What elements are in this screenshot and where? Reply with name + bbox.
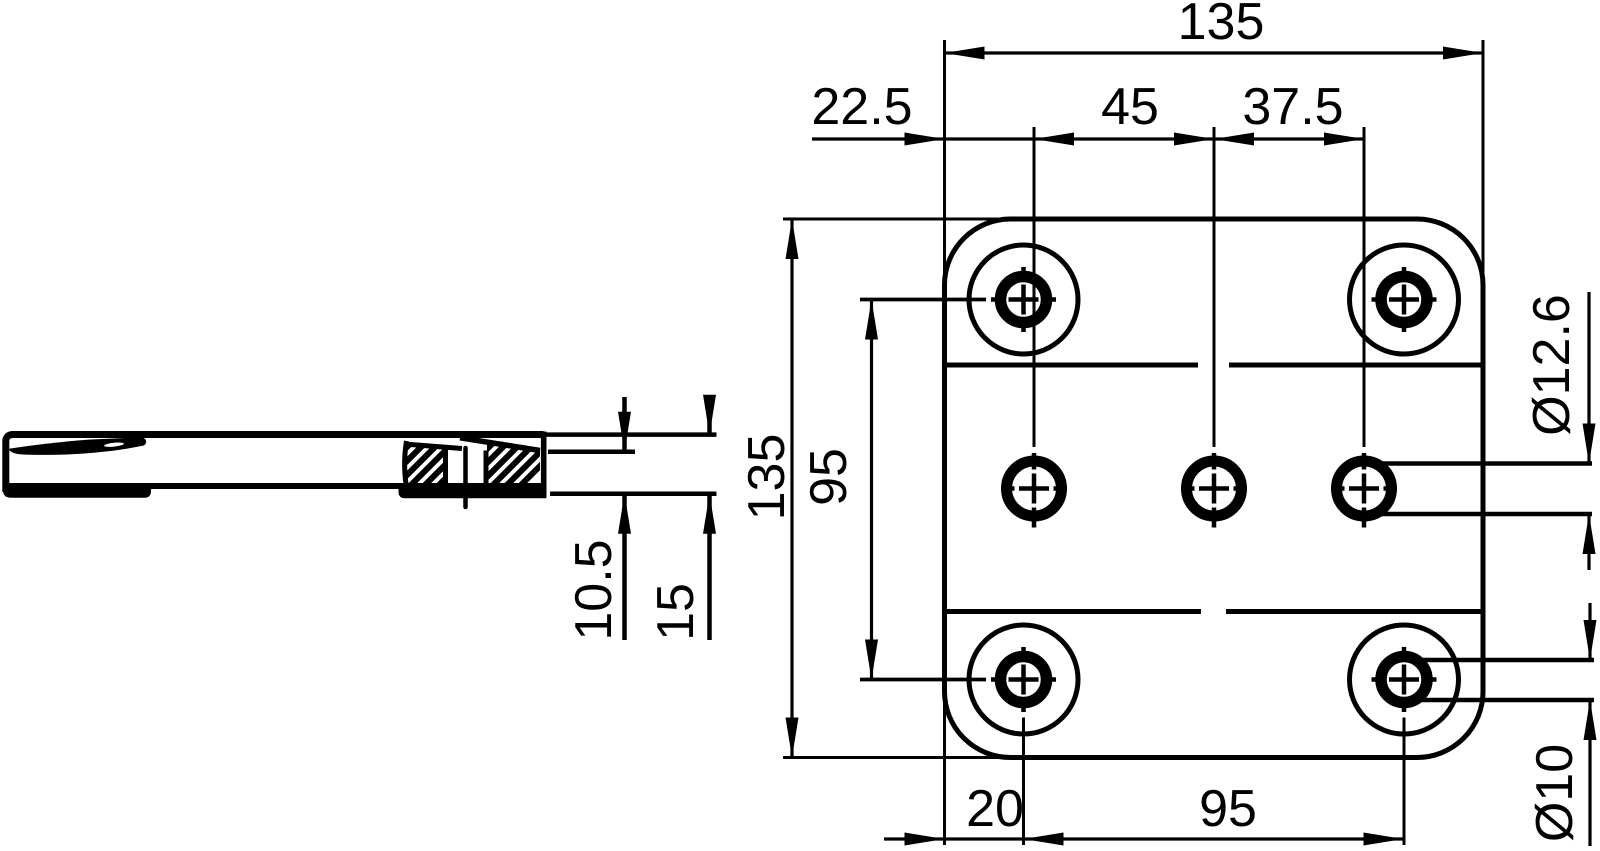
section seat slant right [460,438,540,451]
hole top-right: centerlines [1372,267,1437,332]
extension line below bottom-left hole [1022,718,1025,846]
svg-text:15: 15 [647,583,705,641]
svg-text:Ø10: Ø10 [1526,744,1584,842]
right rubber pad under section (filled) [399,483,547,498]
white sliver inside swoosh [104,442,124,448]
extension line plate left below [943,695,946,845]
hole middle-left: bore circle [1007,461,1062,516]
left rubber pad (filled) [3,483,151,498]
svg-text:45: 45 [1101,78,1159,136]
hole top-right: bore circle [1381,277,1427,323]
side view body outline (top edge + left cap) [6,435,544,493]
svg-text:135: 135 [1178,0,1265,51]
hole middle-left: centerlines [1001,453,1067,528]
section hole centerline [463,448,468,507]
svg-text:135: 135 [738,434,796,521]
dimension line 12.6 [1587,292,1590,464]
extension line above middle-right hole [1363,127,1366,447]
curved recess edge (swoosh) [9,437,146,455]
svg-text:95: 95 [800,448,858,506]
section seat slant left [404,444,462,449]
hatch right region [446,440,566,490]
hole bottom-left: centerlines [860,647,1056,712]
dimension line 10 [1588,603,1591,660]
section left curved edge [405,441,407,490]
leader lines diameter 12.6 [1369,461,1592,466]
hole bottom-right: counterbore circle [1350,625,1459,734]
plate outline [945,219,1484,758]
extension line plate right above [1482,40,1485,290]
hole top-left: bore circle [1001,277,1047,323]
hole bottom-right: bore circle [1381,657,1427,703]
hole bottom-left: counterbore circle [969,625,1078,734]
channel edge line upper [945,363,1199,368]
svg-text:37.5: 37.5 [1242,78,1343,136]
extension line above middle-left hole [1033,127,1036,447]
svg-text:10.5: 10.5 [565,539,623,640]
side view extension line bottom [550,492,717,497]
section hole right wall [484,451,489,487]
hole middle-center: centerlines [1181,453,1247,528]
extension line left 135 top [783,218,1012,221]
dimension line 95 left [870,300,873,680]
side view extension line top [546,432,717,437]
dimension line 10.5 [622,397,627,452]
hole top-right: counterbore circle [1350,245,1459,354]
hatch left region [366,444,480,488]
dimension line 135 left [790,219,793,758]
dimension line 15 [707,397,712,435]
hole bottom-left: bore circle [1001,657,1047,703]
extension line left 135 bottom [783,756,1012,759]
leader lines diameter 10 [1412,658,1594,663]
svg-text:22.5: 22.5 [811,78,912,136]
extension line plate left above [943,40,946,290]
hole top-left: centerlines [860,267,1056,332]
dimension line 20 / 95 bottom [884,837,1404,840]
dimension line 135 top [945,51,1484,54]
hole bottom-right: centerlines [1372,647,1437,712]
svg-text:20: 20 [966,780,1024,838]
dimension line 22.5 / 45 / 37.5 [812,137,1364,140]
hole middle-right: centerlines [1331,453,1397,528]
side view bottom edge line [4,483,543,489]
hole middle-right: bore circle [1337,461,1392,516]
section hole left wall [443,450,448,487]
svg-text:95: 95 [1199,780,1257,838]
svg-text:Ø12.6: Ø12.6 [1523,294,1581,436]
channel edge line lower [945,609,1202,614]
hole top-left: counterbore circle [969,245,1078,354]
side view right edge [541,432,547,498]
extension line below bottom-right hole [1403,718,1406,846]
extension line above middle-center hole [1213,127,1216,447]
side view extension line seat [548,450,635,455]
hole middle-center: bore circle [1187,461,1242,516]
